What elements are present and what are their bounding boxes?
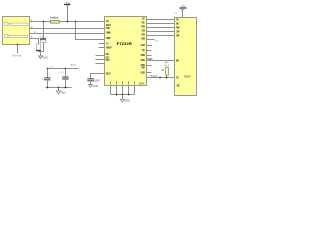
svg-text:RTS#: RTS# <box>176 25 180 29</box>
svg-text:NC: NC <box>106 41 109 45</box>
svg-text:GND: GND <box>176 83 180 87</box>
svg-text:CBUS4: CBUS4 <box>139 83 146 85</box>
wire C2 top <box>65 69 67 78</box>
svg-text:4k7: 4k7 <box>164 66 169 68</box>
IC right stubs mid <box>147 46 152 73</box>
ground symbol <box>38 56 42 59</box>
junction Vcc on VBUS wire <box>67 21 69 23</box>
svg-text:GND: GND <box>43 57 49 59</box>
svg-text:RXD: RXD <box>176 21 180 25</box>
svg-text:PWREN: PWREN <box>147 59 153 61</box>
wire bottom right to connector <box>147 77 175 79</box>
svg-text:DSR#: DSR# <box>141 36 145 40</box>
wire C2 bottom <box>65 79 67 88</box>
decoupling rail top <box>48 68 79 70</box>
svg-text:100nF: 100nF <box>95 80 101 82</box>
IC left stubs <box>96 44 105 64</box>
svg-text:GND: GND <box>93 86 98 88</box>
svg-text:TXD: TXD <box>142 16 146 20</box>
USB connector pin contact glyph upper <box>5 23 28 26</box>
svg-text:SLP: SLP <box>165 62 169 64</box>
svg-text:DB9M: DB9M <box>184 76 191 79</box>
svg-text:VCC: VCC <box>106 19 110 23</box>
wire Vcc to connector <box>182 8 184 18</box>
resistor R1 <box>166 68 169 76</box>
capacitor C2 plates <box>62 76 68 78</box>
junction VBUS at x=43.5 <box>43 21 45 23</box>
svg-text:TEST: TEST <box>105 58 110 62</box>
wire bus to ground <box>122 95 124 100</box>
junction dots rail <box>47 87 49 89</box>
wire GND pin4 of USB <box>30 39 39 44</box>
wire Vcc drop <box>67 4 69 21</box>
wire R1 bottom <box>166 75 168 77</box>
svg-text:CTS#: CTS# <box>141 28 145 32</box>
svg-text:VCCIO: VCCIO <box>106 26 110 30</box>
junction shield pin <box>17 44 19 46</box>
IC right pin labels mid <box>140 43 145 74</box>
bottom ground bus <box>111 94 135 96</box>
svg-text:GND: GND <box>61 93 66 95</box>
svg-text:RI#: RI# <box>142 48 146 52</box>
svg-text:USBDP: USBDP <box>106 36 111 40</box>
svg-text:TXD: TXD <box>176 75 179 79</box>
wire VBUS from USB pin1 to IC <box>30 21 105 23</box>
IC bottom pins <box>111 86 135 95</box>
svg-text:Shield: Shield <box>12 54 22 57</box>
svg-text:5V0: 5V0 <box>71 65 77 67</box>
junction dot <box>159 77 161 79</box>
junction R1 <box>166 77 168 79</box>
svg-text:CTS#: CTS# <box>176 29 180 33</box>
wire rail to ground <box>58 88 60 92</box>
wire shield down <box>17 45 19 54</box>
wire C1 top <box>47 69 49 78</box>
wire 3V3 cap <box>91 74 105 79</box>
junction C1 top <box>47 68 49 70</box>
ground symbol rail <box>56 91 60 94</box>
capacitor C4 body <box>37 44 41 50</box>
wire USBDM from USB pin2 to IC <box>30 28 105 30</box>
svg-text:TXD: TXD <box>176 17 180 21</box>
junction C2 top <box>65 68 67 70</box>
wire C1 bottom <box>47 80 49 88</box>
svg-text:DCD#: DCD# <box>141 43 146 47</box>
capacitor C3 plates <box>87 78 94 80</box>
junction dots bus <box>116 94 118 96</box>
svg-text:CBUS0: CBUS0 <box>140 53 145 57</box>
svg-text:PWR: PWR <box>176 58 179 62</box>
wire R2 bottom <box>43 43 45 52</box>
IC U1 FT232R body <box>105 17 147 86</box>
USB connector pin contact glyph lower <box>5 35 28 38</box>
USB connector J1 body <box>3 17 30 45</box>
svg-text:RESET#: RESET# <box>106 46 112 50</box>
svg-text:CBUS1: CBUS1 <box>140 58 145 62</box>
svg-text:PWR: PWR <box>141 66 145 70</box>
svg-text:CBUS3: CBUS3 <box>140 71 145 75</box>
wire CBUS to connector <box>147 60 175 62</box>
IC right pin labels top <box>141 16 145 40</box>
wire to IC VCC pin <box>76 22 105 40</box>
junction VCC to IC pin <box>75 21 77 23</box>
wire jog to ground <box>39 50 44 52</box>
svg-text:DTR#: DTR# <box>176 33 180 37</box>
ground symbol bottom <box>120 99 124 102</box>
connector J2 pin labels <box>176 17 180 87</box>
IC right wires top to connector <box>147 20 175 40</box>
resistor R2 body <box>40 40 45 43</box>
svg-text:USBDM: USBDM <box>106 31 111 35</box>
wire ground drop <box>40 52 42 57</box>
svg-text:FT232R: FT232R <box>117 41 132 46</box>
wire C3 to ground <box>90 81 92 85</box>
decoupling rail bottom <box>46 87 72 89</box>
svg-text:RXD: RXD <box>142 20 146 24</box>
capacitor C4 bottom bar <box>36 50 41 51</box>
IC bottom pin name marks <box>110 81 135 84</box>
svg-text:3V3OUT: 3V3OUT <box>105 71 111 75</box>
svg-text:GND: GND <box>125 101 130 103</box>
wire USBDP from USB pin3 to IC <box>30 33 105 35</box>
ferrite bead FB2 (dark bar) <box>40 38 46 39</box>
IC left pin labels <box>105 19 112 76</box>
wire down to R2 <box>43 22 45 39</box>
capacitor C1 plates <box>44 77 50 79</box>
connector J2 body <box>175 18 197 96</box>
svg-text:DTR#: DTR# <box>141 32 145 36</box>
svg-text:TXDEN: TXDEN <box>149 76 158 78</box>
svg-text:Ferrite Bead: Ferrite Bead <box>50 16 59 19</box>
ferrite bead FB1 <box>51 20 60 23</box>
svg-text:+C2: +C2 <box>58 72 65 74</box>
svg-text:RTS#: RTS# <box>141 24 145 28</box>
ground symbol C3 <box>89 85 93 88</box>
